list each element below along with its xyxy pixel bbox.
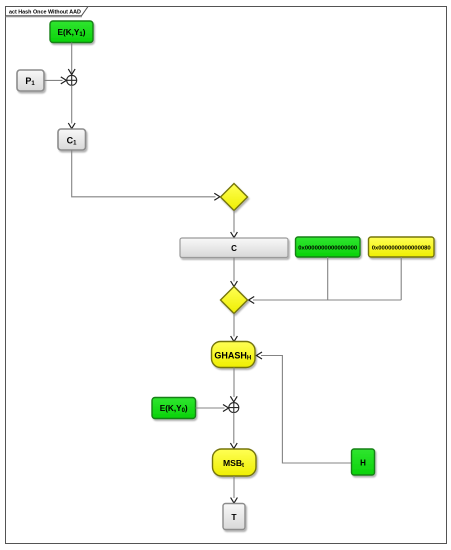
wire E(K,Y0) to XOR2 [196,407,225,409]
activity MSBt [213,449,257,476]
wire GHASH to XOR2 [233,368,235,398]
svg-text:C: C [231,244,237,253]
wire E(K,Y1) to XOR1 [71,43,73,74]
object P1 [17,70,44,91]
wire H to GHASH [261,356,352,464]
wire C to diamond2 [233,258,235,282]
object 0x0000000000000080 [369,237,435,257]
wire XOR1 to C1 [71,85,73,123]
object H [352,449,375,475]
frame tab act Hash Once Without AAD [6,7,89,17]
svg-text:H: H [360,458,366,467]
wire diamond1 to C [233,211,235,233]
object 0x0000000000000000 [296,237,361,257]
svg-text:T: T [231,512,237,522]
decision diamond2 [221,287,248,314]
wire P1 to XOR1 [44,79,63,81]
activity E(K,Y1) [50,21,93,43]
activity GHASH_H [212,342,256,368]
wire MSBt to T [233,476,235,498]
wire XOR2 to MSBt [233,413,235,444]
svg-text:GHASHH: GHASHH [214,350,251,361]
wire diamond2 to GHASH [233,314,235,337]
svg-text:MSBt: MSBt [223,458,244,469]
wire C1 to diamond1 [72,150,216,197]
svg-text:act Hash Once Without AAD: act Hash Once Without AAD [9,10,81,16]
object T [223,504,245,530]
activity E(K,Y0) [152,398,196,419]
object C1 [58,129,86,150]
decision diamond1 [221,184,248,211]
svg-text:0x0000000000000080: 0x0000000000000080 [372,246,432,252]
xor node XOR1 [67,75,77,85]
xor node XOR2 [229,403,239,413]
object C [180,238,288,258]
wire hex boxes to diamond2 [253,257,401,300]
svg-text:0x0000000000000000: 0x0000000000000000 [298,246,358,252]
